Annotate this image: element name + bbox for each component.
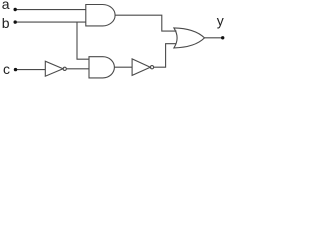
wire U4 output to OR bottom input (154, 44, 177, 67)
wire OR output to terminal y (205, 37, 223, 39)
and-gate U1 (inputs a,b) (86, 5, 115, 26)
wire AND2 output to U4 input (114, 66, 132, 68)
svg-text:a: a (2, 0, 10, 12)
terminal dot a (14, 8, 17, 11)
wire U3 output to AND2 bottom input (66, 68, 89, 70)
wire a (15, 9, 86, 11)
inverter U4 bubble (150, 66, 153, 69)
terminal dot y (221, 36, 224, 39)
or-gate U5 (174, 28, 205, 48)
and-gate U2 (bottom) (89, 57, 114, 78)
wire c (16, 69, 46, 71)
terminal dot b (14, 20, 17, 23)
inverter U4 triangle (132, 59, 150, 76)
wire b (15, 21, 86, 23)
inverter U3 triangle (45, 61, 63, 76)
svg-text:c: c (3, 61, 10, 77)
wire b branch to AND2 top input (77, 22, 89, 59)
svg-text:y: y (217, 13, 224, 29)
inverter U3 bubble (63, 67, 66, 70)
wire AND1 output to OR top input (115, 15, 176, 31)
terminal dot c (14, 68, 17, 71)
svg-text:b: b (2, 15, 10, 31)
